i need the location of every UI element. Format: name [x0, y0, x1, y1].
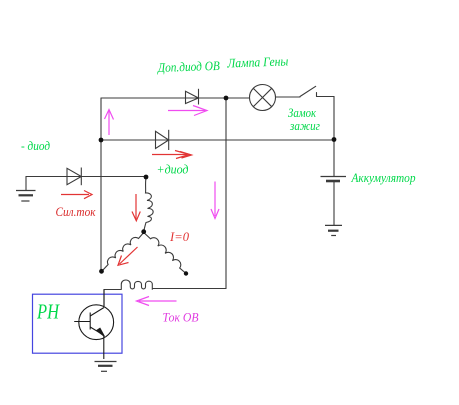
junction node D3 row / phase top	[144, 175, 149, 180]
diode D2 (+диод)	[156, 130, 169, 150]
wire left vertical bus	[100, 98, 102, 271]
junction node left bus / D2 row	[99, 138, 104, 143]
ground G1 (near diode D3)	[16, 191, 36, 202]
wire ground stub left	[25, 177, 27, 191]
junction node at lamp branch	[224, 96, 229, 101]
wire right bus to battery	[333, 140, 335, 176]
wire field winding to collector drop	[104, 290, 121, 307]
wire battery to ground	[333, 182, 335, 226]
svg-text:+диод: +диод	[157, 162, 189, 177]
junction node left bus / phase end	[99, 269, 104, 274]
wire bottom row to field winding	[153, 288, 227, 290]
switch SA1 (замок зажигания) blade	[300, 86, 316, 96]
svg-text:Лампа Гены: Лампа Гены	[226, 53, 289, 70]
svg-text:I=0: I=0	[169, 229, 189, 244]
arrow A1 magenta up (left bus current)	[105, 110, 114, 136]
arrow A4 red right (through D3)	[61, 191, 92, 199]
arrow A6 red down-left (phase L2 current)	[118, 247, 138, 265]
arrow A5 red down (phase L1 current)	[132, 194, 140, 221]
diode D1 (Доп.диод ОВ)	[186, 89, 199, 105]
arrow A2 magenta right (through D1)	[168, 106, 207, 116]
stator winding L2 (lower-left phase)	[102, 233, 144, 272]
svg-text:- диод: - диод	[21, 138, 50, 153]
wire diode D3 row from ground stub	[26, 176, 146, 178]
svg-text:Сил.ток: Сил.ток	[56, 204, 97, 219]
arrow A3 red right (through D2)	[152, 151, 192, 159]
junction node star centre	[141, 229, 146, 234]
svg-text:Доп.диод ОВ: Доп.диод ОВ	[156, 58, 220, 75]
svg-text:зажиг: зажиг	[289, 118, 320, 133]
open phase terminal blob	[184, 271, 188, 275]
battery GB1 short thick plate	[326, 180, 340, 183]
wire switch to right bus	[317, 97, 335, 141]
wire inner vertical from lamp node down	[225, 98, 227, 289]
switch SA1 right contact tick	[316, 93, 318, 97]
ground G2 (emitter)	[95, 362, 117, 372]
battery GB1 (Аккумулятор) long plate	[321, 176, 347, 178]
svg-text:Ток ОВ: Ток ОВ	[163, 310, 199, 325]
stator winding L1 (vertical phase)	[144, 178, 153, 231]
svg-text:РН: РН	[36, 300, 60, 324]
arrow A7 magenta down (inner bus current)	[211, 182, 219, 219]
arrow A8 magenta left (field current)	[137, 297, 177, 306]
diode D3 (-диод, силовой)	[67, 168, 81, 186]
svg-text:Аккумулятор: Аккумулятор	[351, 170, 416, 185]
transistor VT1 emitter arrow head	[97, 328, 105, 336]
regulator box РН	[33, 294, 123, 353]
wire middle horizontal (diode D2 row)	[101, 139, 334, 141]
junction node right bus / D2 row	[332, 137, 337, 142]
wire top bus from left corner to lamp	[101, 97, 250, 99]
ground G3 (battery)	[325, 225, 342, 235]
transistor VT1	[74, 290, 113, 360]
field winding L4 (обмотка возбуждения)	[121, 280, 152, 290]
wire lamp to switch	[276, 96, 301, 98]
stator winding L3 (lower-right phase)	[144, 233, 186, 274]
lamp HL1 (Лампа Гены)	[250, 85, 276, 111]
